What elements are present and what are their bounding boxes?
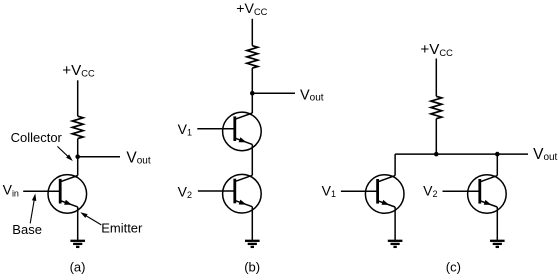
node Q2 collector junction (c) — [495, 152, 500, 157]
wire VCC to resistor (c) — [435, 59, 437, 97]
wire emitter to ground (a) — [77, 207, 79, 241]
svg-text:(b): (b) — [244, 260, 260, 275]
resistor R (a) — [72, 116, 83, 138]
svg-text:Collector: Collector — [11, 130, 63, 145]
wire node to Q1 collector (b) — [251, 93, 253, 113]
arrow Base pointer — [30, 194, 36, 224]
svg-text:(c): (c) — [446, 260, 461, 275]
wire bus to Q2 collector (c) — [496, 154, 498, 176]
wire VCC to resistor (b) — [251, 19, 253, 46]
ground Q2 (c) — [490, 241, 505, 247]
transistor Q2 (b) — [198, 174, 261, 213]
wire output (b) — [252, 92, 295, 94]
wire output bus (c) — [395, 153, 528, 155]
wire VCC to resistor (a) — [77, 80, 79, 116]
ground (a) — [70, 241, 85, 247]
wire resistor to bus (c) — [435, 119, 437, 155]
wire Q1 emitter to Q2 collector (b) — [251, 144, 253, 175]
wire resistor to node (a) — [77, 139, 79, 157]
wire output (a) — [78, 156, 120, 158]
ground Q1 (c) — [388, 241, 403, 247]
wire Q2 emitter to ground (b) — [251, 207, 253, 241]
ground (b) — [245, 241, 260, 247]
wire resistor to node (b) — [251, 68, 253, 93]
node collector/output (a) — [75, 154, 80, 159]
transistor Q2 (c) — [443, 175, 507, 214]
wire Q1 emitter to ground (c) — [394, 207, 396, 241]
transistor Q1 (b) — [197, 112, 261, 151]
arrow Emitter pointer — [80, 212, 101, 225]
arrow Collector pointer — [57, 146, 72, 161]
node resistor/bus junction (c) — [434, 152, 439, 157]
wire node to collector (a) — [77, 157, 79, 176]
svg-text:(a): (a) — [70, 260, 86, 275]
resistor R (b) — [247, 46, 258, 68]
svg-text:Emitter: Emitter — [101, 220, 143, 235]
transistor Q1 (a) — [23, 175, 86, 214]
wire Q2 emitter to ground (c) — [496, 207, 498, 241]
transistor Q1 (c) — [341, 175, 404, 214]
svg-text:Base: Base — [12, 222, 42, 237]
node output (b) — [250, 91, 255, 96]
resistor R (c) — [431, 96, 442, 118]
wire bus to Q1 collector (c) — [394, 154, 396, 176]
